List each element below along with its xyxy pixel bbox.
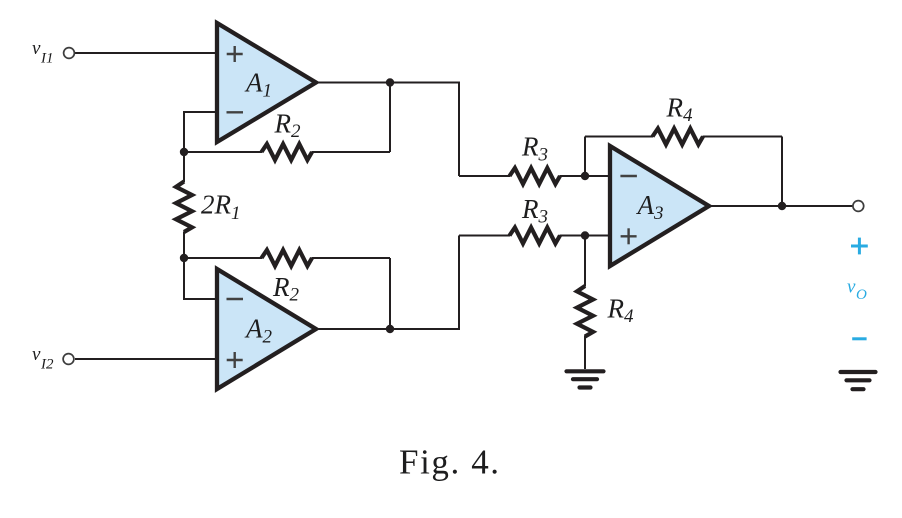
resistor R2 (top) xyxy=(184,151,262,153)
wire A2 output xyxy=(316,236,459,330)
resistor R3 (bottom) xyxy=(459,235,510,237)
node junction A3 plus xyxy=(581,231,589,239)
node junction A1 output xyxy=(386,78,394,86)
resistor 2R1 xyxy=(183,152,185,182)
op-amp A2 minus input sign xyxy=(227,298,244,300)
node junction A3 output xyxy=(778,202,786,210)
op-amp A3 plus input sign xyxy=(621,228,637,244)
resistor R2 (bottom) xyxy=(184,257,262,259)
resistor R4 (to ground) xyxy=(584,236,586,287)
label output minus sign xyxy=(852,337,866,340)
resistor R4 (feedback) xyxy=(585,136,653,138)
resistor R3 (top) xyxy=(459,175,510,177)
terminal vI1 xyxy=(64,48,75,59)
wire A1 - input xyxy=(184,112,217,152)
op-amp A1 minus input sign xyxy=(227,111,244,113)
ground (below R4) xyxy=(567,371,604,387)
op-amp A3 xyxy=(610,146,709,266)
wire vI1 input to A1 + xyxy=(75,52,217,54)
wire A1 output xyxy=(316,83,459,177)
svg-text:Fig. 4.: Fig. 4. xyxy=(399,443,501,482)
wire A2 - input xyxy=(184,258,217,299)
node junction R2top/2R1 xyxy=(180,148,188,156)
label output plus sign xyxy=(851,238,868,255)
op-amp A1 plus input sign xyxy=(227,46,243,62)
svg-text:vO: vO xyxy=(847,277,867,303)
svg-text:R4: R4 xyxy=(607,293,635,327)
op-amp A3 minus input sign xyxy=(620,175,637,177)
terminal output xyxy=(853,201,864,212)
svg-text:R3: R3 xyxy=(521,194,548,228)
wire R4 feedback right vertical xyxy=(781,137,783,207)
ground (output reference) xyxy=(841,372,876,389)
op-amp A2 xyxy=(217,269,316,389)
terminal vI2 xyxy=(63,354,74,365)
node junction A2 output xyxy=(386,325,394,333)
svg-text:R4: R4 xyxy=(666,92,694,126)
svg-text:R2: R2 xyxy=(274,108,302,142)
wire R2 bottom feedback vertical xyxy=(389,258,391,329)
node junction R2bot/2R1 xyxy=(180,254,188,262)
svg-text:R3: R3 xyxy=(521,132,548,166)
svg-text:R2: R2 xyxy=(272,272,300,306)
svg-text:vI1: vI1 xyxy=(32,38,53,67)
wire A3 output xyxy=(709,205,853,207)
wire R4 feedback left vertical xyxy=(584,137,586,177)
svg-text:vI2: vI2 xyxy=(32,344,54,373)
wire vI2 input to A2 + xyxy=(75,358,217,360)
svg-text:2R1: 2R1 xyxy=(201,190,241,225)
op-amp A1 xyxy=(217,23,316,142)
op-amp A2 plus input sign xyxy=(227,352,243,368)
node junction A3 minus xyxy=(581,172,589,180)
wire R2 top feedback vertical xyxy=(389,83,391,153)
